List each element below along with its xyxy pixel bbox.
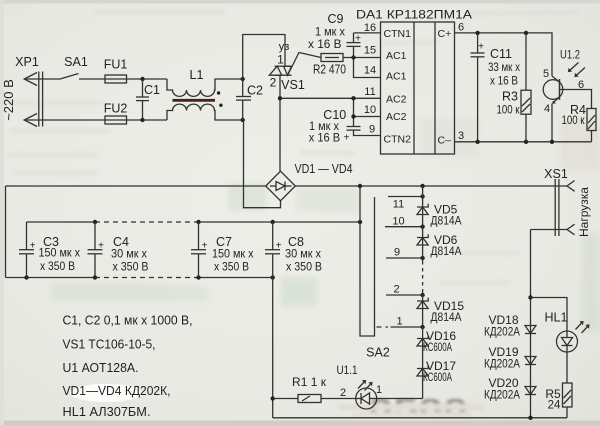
connector XP1 body bars xyxy=(39,72,43,127)
optocoupler U1.2 phototransistor xyxy=(543,76,563,104)
scan edge band top xyxy=(0,0,600,4)
svg-text:C+: C+ xyxy=(438,28,452,40)
fuse FU2 xyxy=(105,116,127,124)
svg-text:VS1 ТС106-10-5,: VS1 ТС106-10-5, xyxy=(63,337,156,352)
svg-text:+: + xyxy=(276,241,282,252)
wire pin 16 xyxy=(354,32,381,34)
svg-text:150 мк x: 150 мк x xyxy=(212,249,254,261)
node C1 top xyxy=(140,77,144,81)
svg-text:10: 10 xyxy=(392,216,404,228)
svg-text:C8: C8 xyxy=(288,235,304,249)
svg-text:14: 14 xyxy=(364,65,376,77)
svg-text:1: 1 xyxy=(396,316,402,328)
svg-text:x 350 В: x 350 В xyxy=(214,262,249,274)
connector XP1 plug pin bottom xyxy=(24,114,37,127)
svg-text:DA1 КР1182ПМ1А: DA1 КР1182ПМ1А xyxy=(356,8,472,22)
svg-text:R1 1 к: R1 1 к xyxy=(292,375,327,389)
inductor L1 top polarity dot xyxy=(217,91,220,94)
svg-text:33 мк x: 33 мк x xyxy=(488,62,520,74)
svg-text:100 к: 100 к xyxy=(497,105,521,117)
svg-text:U1.1: U1.1 xyxy=(337,365,358,377)
svg-text:9: 9 xyxy=(369,124,375,136)
wire tap 11 xyxy=(388,196,423,198)
wire zener string dashed section xyxy=(422,261,424,292)
svg-text:FU1: FU1 xyxy=(104,58,128,72)
wire FU2 to L1 xyxy=(127,119,168,121)
node C7 bottom xyxy=(196,275,200,279)
node R1 junction xyxy=(271,396,275,400)
wire R2 to pin 15 xyxy=(343,57,381,59)
optocoupler U1.1 light arrows xyxy=(358,380,373,391)
svg-text:AC2: AC2 xyxy=(386,94,407,106)
node SA2 column on DC rail xyxy=(358,184,362,188)
svg-text:VD6: VD6 xyxy=(434,233,458,247)
wire pin 3 rail xyxy=(455,141,592,143)
wire phase from XP1 to SA1 xyxy=(24,78,60,80)
wire capacitor bottom rail solid C7-C8 xyxy=(199,277,273,279)
svg-text:SA1: SA1 xyxy=(64,55,88,69)
svg-text:5: 5 xyxy=(543,68,549,80)
svg-text:16: 16 xyxy=(364,22,376,34)
svg-text:C1: C1 xyxy=(144,83,160,97)
wire U1.2 base to R4 xyxy=(560,90,592,109)
wire to R1 xyxy=(273,398,298,400)
fuse FU1 xyxy=(105,75,127,83)
LED HL1 light arrows xyxy=(576,321,590,333)
svg-text:уз: уз xyxy=(279,41,290,53)
wire bypass to triac anode 1 xyxy=(243,35,285,80)
svg-text:КС600А: КС600А xyxy=(423,342,452,354)
wire zener string lower xyxy=(422,292,424,399)
svg-text:100 к: 100 к xyxy=(562,115,586,127)
node R3 top xyxy=(524,31,528,35)
zener VD5 xyxy=(417,204,428,215)
svg-text:9: 9 xyxy=(394,247,400,259)
node tap 10 xyxy=(420,225,424,229)
svg-text:Нагрузка: Нагрузка xyxy=(577,187,591,237)
inductor L1 bottom winding xyxy=(167,104,243,120)
svg-text:U1 АОТ128А.: U1 АОТ128А. xyxy=(63,360,139,375)
zener VD6 xyxy=(417,234,428,245)
scan edge band left xyxy=(0,0,4,425)
node pin15 C9 junction xyxy=(351,55,355,59)
svg-text:VS1: VS1 xyxy=(281,78,305,92)
connector XS1 socket contact bottom xyxy=(567,224,575,235)
svg-text:C1, C2 0,1 мк x 1000 В,: C1, C2 0,1 мк x 1000 В, xyxy=(63,313,193,328)
node tap 1 xyxy=(420,325,424,329)
node tap 2 xyxy=(420,293,424,297)
svg-text:КД202А: КД202А xyxy=(484,359,520,371)
connector XP1 plug pin top xyxy=(24,73,37,86)
svg-text:SA2: SA2 xyxy=(366,346,390,360)
connector XS1 socket contact top xyxy=(567,181,575,192)
node C3 bottom xyxy=(24,275,28,279)
svg-text:1 мк x: 1 мк x xyxy=(315,27,345,39)
wire left vertical down xyxy=(5,186,7,278)
svg-text:AC2: AC2 xyxy=(386,111,407,123)
svg-text:AC1: AC1 xyxy=(386,71,407,83)
node C2 top xyxy=(241,77,245,81)
wire bottom return rail xyxy=(273,417,567,419)
node C4 bottom xyxy=(93,275,97,279)
svg-text:x 350 В: x 350 В xyxy=(40,261,75,273)
svg-text:2: 2 xyxy=(270,76,277,90)
wire capacitor bottom rail solid C3-C4 xyxy=(6,277,96,279)
svg-text:C7: C7 xyxy=(216,235,232,249)
resistor R4 xyxy=(587,109,596,142)
diode VD20 xyxy=(525,387,536,395)
optocoupler U1.2 light arrows xyxy=(568,63,585,78)
svg-text:VD1 — VD4: VD1 — VD4 xyxy=(295,162,353,176)
connector XS1 body bars xyxy=(555,179,559,236)
svg-text:2: 2 xyxy=(393,284,399,296)
rectifier bridge VD1-VD4 xyxy=(266,171,296,201)
svg-text:24: 24 xyxy=(548,400,561,412)
capacitor C10 xyxy=(347,127,361,131)
capacitor C1 xyxy=(136,79,149,120)
svg-text:2: 2 xyxy=(340,387,346,399)
svg-text:CTN2: CTN2 xyxy=(384,134,412,146)
wire triac gate to R2 xyxy=(288,53,321,75)
svg-text:Д814А: Д814А xyxy=(431,246,462,258)
svg-text:L1: L1 xyxy=(190,68,204,82)
svg-text:VD16: VD16 xyxy=(426,329,456,343)
svg-text:XS1: XS1 xyxy=(544,167,568,181)
svg-text:КС600А: КС600А xyxy=(423,372,452,384)
svg-text:11: 11 xyxy=(364,86,375,98)
svg-text:11: 11 xyxy=(393,199,404,211)
svg-text:U1.2: U1.2 xyxy=(560,50,580,62)
node AC2 branch xyxy=(351,96,355,100)
svg-text:150 мк x: 150 мк x xyxy=(39,248,81,260)
node C11 top xyxy=(475,31,479,35)
wire AC2 branch down xyxy=(353,98,355,126)
node C7 top xyxy=(196,220,200,224)
wire tap 10 xyxy=(385,226,423,228)
capacitor C11 xyxy=(471,33,485,142)
svg-text:x 16 В: x 16 В xyxy=(490,76,518,88)
wire capacitor top rail solid C3-C4 xyxy=(27,221,96,223)
svg-text:HL1 АЛ307БМ.: HL1 АЛ307БМ. xyxy=(63,404,151,419)
svg-text:C4: C4 xyxy=(113,235,129,249)
wire C10 to pin 9 xyxy=(354,130,381,135)
wire capacitor top rail solid C7-SA2 xyxy=(199,221,361,223)
svg-text:AC1: AC1 xyxy=(386,50,407,62)
inductor L1 bottom polarity dot xyxy=(219,104,222,107)
svg-text:+: + xyxy=(202,241,208,252)
wire pin 10 xyxy=(354,116,381,118)
svg-text:R2 470: R2 470 xyxy=(313,63,346,77)
svg-text:Д814А: Д814А xyxy=(431,312,462,324)
wire pin 6 rail xyxy=(455,33,553,76)
wire FU1 to L1 xyxy=(127,78,168,80)
svg-text:VD15: VD15 xyxy=(434,299,464,313)
node SA2 top rail junction xyxy=(358,220,362,224)
svg-text:4: 4 xyxy=(544,103,550,115)
resistor R3 xyxy=(521,33,531,142)
wire bridge bottom return to neutral xyxy=(244,120,281,208)
wire load return column xyxy=(530,230,532,418)
node triac AC2 xyxy=(278,96,282,100)
wire triac node down to bridge xyxy=(279,98,281,171)
wire tap 1 xyxy=(391,326,423,328)
capacitor C8 xyxy=(265,222,280,278)
svg-text:FU2: FU2 xyxy=(104,102,128,116)
svg-text:C10: C10 xyxy=(323,108,346,122)
node C8 top xyxy=(271,220,275,224)
svg-text:6: 6 xyxy=(458,22,464,34)
wire tap 9 xyxy=(386,257,423,259)
svg-text:15: 15 xyxy=(364,45,376,57)
svg-text:XP1: XP1 xyxy=(15,55,39,69)
zener VD16 xyxy=(417,335,428,346)
wire C8 column down xyxy=(272,278,274,418)
svg-text:3: 3 xyxy=(458,130,464,142)
capacitor C7 xyxy=(191,222,206,278)
node bottom rail join xyxy=(528,416,532,420)
LED HL1 xyxy=(557,331,578,352)
wire HL1 to R5 xyxy=(566,352,568,383)
wire HL1 branch top xyxy=(531,298,568,332)
svg-text:x 16 В: x 16 В xyxy=(309,133,341,145)
svg-text:C11: C11 xyxy=(490,47,512,61)
wire SA2 dashed link to tap 1 xyxy=(377,326,389,328)
svg-text:C2: C2 xyxy=(247,84,263,98)
node C2 bottom xyxy=(241,118,245,122)
wire U1.1 to zener string bottom xyxy=(377,398,423,400)
resistor R5 xyxy=(563,383,573,418)
node tap 11 xyxy=(420,194,424,198)
wire tap 2 xyxy=(386,294,423,296)
svg-text:+: + xyxy=(478,42,484,53)
wire zener string upper xyxy=(422,186,424,261)
node C1 bottom xyxy=(140,118,144,122)
capacitor C3 xyxy=(19,222,34,278)
svg-text:+: + xyxy=(344,133,350,144)
wire AC2 line pin 11 xyxy=(280,97,381,99)
svg-text:10: 10 xyxy=(364,104,376,116)
diode VD18 xyxy=(525,326,536,334)
svg-text:VD5: VD5 xyxy=(434,203,458,217)
svg-text:C–: C– xyxy=(438,135,452,147)
svg-text:x 350 В: x 350 В xyxy=(113,262,149,274)
svg-text:C9: C9 xyxy=(328,12,344,26)
wire neutral XP1 to FU2 xyxy=(24,119,105,121)
switch SA1 lever xyxy=(60,74,79,80)
wire capacitor top rail dashed C4-C7 xyxy=(95,221,199,223)
svg-text:x 350 В: x 350 В xyxy=(286,262,322,274)
svg-text:VD19: VD19 xyxy=(488,345,518,359)
capacitor C2 xyxy=(236,79,251,120)
wire U1.2 emitter down xyxy=(551,104,553,142)
svg-text:1: 1 xyxy=(376,384,382,396)
svg-text:VD20: VD20 xyxy=(488,376,518,390)
svg-text:30 мк x: 30 мк x xyxy=(111,249,147,261)
scan edge band bottom xyxy=(0,421,600,425)
wire XS1 bottom contact left xyxy=(531,229,568,231)
inductor L1 core xyxy=(173,99,216,102)
capacitor C9 xyxy=(347,33,361,58)
node C8 bottom xyxy=(271,275,275,279)
node U1.2 emitter xyxy=(550,140,554,144)
svg-text:КД202А: КД202А xyxy=(484,327,520,339)
inductor L1 top winding xyxy=(167,79,243,96)
svg-text:30 мк x: 30 мк x xyxy=(285,249,321,261)
svg-text:+: + xyxy=(30,241,36,252)
svg-text:+: + xyxy=(98,241,104,252)
svg-text:VD17: VD17 xyxy=(426,359,456,373)
wire DC rail right from bridge to XS1 xyxy=(295,185,567,187)
ghost digits bottom center xyxy=(338,395,483,422)
svg-text:R3: R3 xyxy=(502,90,518,104)
white correction blob xyxy=(70,384,142,402)
wire DC rail left from bridge xyxy=(6,185,266,187)
wire capacitor bottom rail dashed C4-C7 xyxy=(95,277,199,279)
svg-text:CTN1: CTN1 xyxy=(384,28,412,40)
svg-text:VD1—VD4 КД202К,: VD1—VD4 КД202К, xyxy=(63,383,171,398)
node tap 9 xyxy=(420,256,424,260)
svg-text:~220 В: ~220 В xyxy=(1,79,16,121)
svg-text:1 мк x: 1 мк x xyxy=(309,121,339,133)
svg-text:VD18: VD18 xyxy=(488,313,518,327)
svg-text:КД202А: КД202А xyxy=(484,390,520,402)
svg-text:Д814А: Д814А xyxy=(431,216,462,228)
svg-text:HL1: HL1 xyxy=(545,311,568,325)
resistor R2 xyxy=(321,54,343,62)
node C11 bottom xyxy=(475,140,479,144)
optocoupler U1.1 LED xyxy=(356,388,377,409)
node R3 bottom xyxy=(524,140,528,144)
zener VD15 xyxy=(417,298,428,309)
ghost print-through patches xyxy=(50,118,600,332)
wire triac cathode down to AC2 node xyxy=(279,75,281,98)
capacitor C4 xyxy=(88,222,103,278)
zener VD17 xyxy=(417,365,428,376)
wire SA1 to FU1 xyxy=(79,78,105,80)
diode VD19 xyxy=(525,357,536,365)
resistor R1 xyxy=(298,395,321,403)
svg-text:x 16 В: x 16 В xyxy=(308,39,342,51)
node HL1 branch xyxy=(528,295,532,299)
node C4 top xyxy=(93,220,97,224)
svg-text:1: 1 xyxy=(277,53,284,67)
wire R1 to U1.1 xyxy=(321,398,356,400)
IC DA1 body xyxy=(381,22,455,154)
node zener string top xyxy=(420,184,424,188)
wire pin 14 to pin 15 xyxy=(354,58,381,78)
node pin10 xyxy=(351,114,355,118)
wire SA2 column xyxy=(360,186,375,336)
triac VS1 xyxy=(269,66,291,75)
